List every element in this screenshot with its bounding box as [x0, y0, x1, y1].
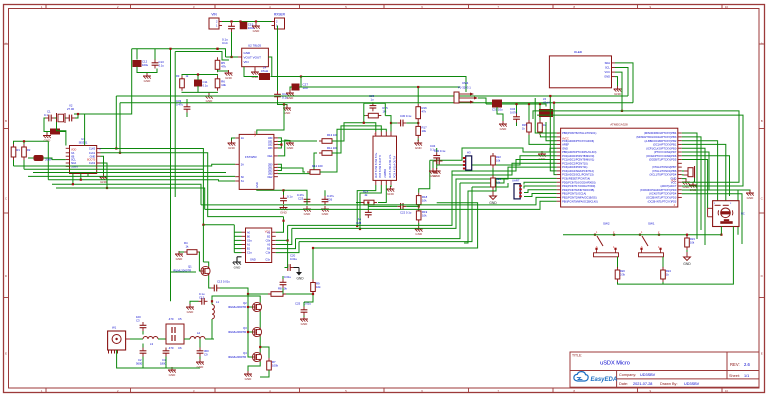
ground right edge: [746, 190, 754, 200]
label Q1: [188, 265, 192, 269]
label C30m: [400, 114, 412, 118]
svg-text:L2: L2: [197, 331, 201, 335]
svg-text:0.01u: 0.01u: [304, 302, 311, 306]
wire outa2 dn: [378, 185, 386, 203]
label OLED: [574, 50, 583, 54]
svg-text:GND: GND: [228, 146, 236, 150]
ground C9: [196, 359, 204, 369]
svg-text:AREF: AREF: [562, 143, 569, 147]
svg-text:GND: GND: [415, 146, 423, 150]
wire u7 lpin: [234, 235, 241, 237]
capacitor C12b: [199, 298, 208, 305]
label W1: [112, 326, 117, 330]
label L2: [197, 331, 201, 335]
node outa: [356, 225, 358, 227]
svg-text:1u: 1u: [371, 98, 375, 102]
wire c25 dn: [303, 316, 305, 318]
label L5v: [543, 101, 550, 105]
wire c31 gnd: [497, 107, 503, 121]
svg-text:GND: GND: [614, 92, 622, 96]
svg-text:10: 10: [725, 5, 729, 9]
ground C26: [321, 206, 329, 216]
IC U7 text: [250, 231, 271, 262]
wire mcu gnd r: [682, 179, 686, 180]
wire 2b comb: [278, 164, 282, 170]
svg-text:GND: GND: [252, 75, 260, 79]
label C14 name: [222, 41, 228, 45]
svg-text:C6: C6: [178, 346, 182, 350]
svg-text:GND: GND: [500, 127, 508, 131]
label CM4: [462, 81, 469, 85]
connector UART: [514, 184, 522, 199]
wire u7 lpin: [234, 239, 241, 241]
svg-text:Sheet:: Sheet:: [729, 374, 740, 378]
node VCC A: [300, 75, 302, 77]
svg-text:SI5351: SI5351: [79, 140, 88, 144]
svg-text:BOOT0: BOOT0: [87, 159, 96, 162]
svg-text:PCB B IN2 B OUT B: PCB B IN2 B OUT B: [379, 155, 382, 178]
resistor R20: [615, 267, 620, 282]
wire audio tie 2: [472, 183, 508, 187]
svg-text:(ICP1/CLKO/PTCXY)PB0: (ICP1/CLKO/PTCXY)PB0: [646, 146, 677, 150]
node u1d1: [72, 183, 74, 185]
wire CLK0 run: [101, 149, 235, 225]
label C14: [222, 38, 228, 42]
ground U5 bottom: [280, 205, 288, 215]
wire r15 top: [528, 104, 530, 120]
svg-text:PC6(/RESET/PCINT14): PC6(/RESET/PCINT14): [562, 177, 590, 181]
svg-text:GND: GND: [322, 212, 330, 216]
wire crystal feed: [74, 49, 132, 114]
wire mcu r8: [682, 160, 708, 209]
svg-text:PC4(ADC4/SDA/PCINT12): PC4(ADC4/SDA/PCINT12): [562, 169, 594, 173]
wire jack mid: [478, 98, 486, 104]
svg-text:C5: C5: [178, 317, 182, 321]
svg-text:1A: 1A: [241, 137, 244, 140]
switch SW2: [594, 222, 619, 257]
capacitor C31: [493, 100, 502, 107]
inductor L2: [190, 337, 205, 340]
node in1b: [390, 122, 392, 124]
svg-text:PC0(ADC0/PCINT8/MUX0): PC0(ADC0/PCINT8/MUX0): [562, 154, 594, 158]
wire mcu pc3 long: [292, 167, 557, 228]
connector OLED outline: [549, 56, 611, 88]
label L3: [150, 342, 154, 346]
label R21v: [496, 181, 501, 185]
wire u7 lpin: [234, 244, 241, 246]
svg-text:H3: H3: [467, 151, 471, 155]
node u2 in: [230, 56, 232, 58]
label C34m: [430, 144, 436, 148]
wire mcu l3: [546, 122, 557, 141]
svg-text:AVCC: AVCC: [562, 138, 569, 141]
capacitor C2: [66, 115, 75, 122]
ground C27: [286, 90, 294, 100]
wire vcc over: [533, 111, 739, 182]
wire r22 r21: [492, 168, 494, 175]
capacitor C14: [228, 23, 235, 32]
label U3: [610, 123, 628, 127]
speaker MIC1: [708, 201, 745, 227]
label R14: [363, 190, 369, 194]
wire mcu r7: [682, 156, 730, 196]
wire u7 a2: [276, 217, 284, 233]
node spk rail: [720, 234, 722, 236]
wire r9 dn: [304, 294, 313, 302]
node r2 top: [23, 140, 25, 142]
label R8: [278, 287, 287, 291]
wire c11 top: [197, 75, 199, 81]
wire to lm2: [332, 126, 381, 153]
MCU pin stub PB0: [557, 200, 561, 202]
label Q3 part: [228, 330, 246, 334]
label C12b: [199, 292, 205, 296]
wire CLK0 down: [202, 225, 204, 262]
node clk2: [106, 187, 108, 189]
svg-text:GND: GND: [144, 79, 152, 83]
node c18: [282, 189, 284, 191]
wire xtal1: [682, 170, 684, 172]
svg-text:47k: 47k: [221, 64, 226, 68]
MCU U3 ATMEGA328: [557, 128, 682, 207]
wire c22 in: [368, 205, 397, 207]
label R20: [620, 269, 625, 273]
svg-text:C30 0.1u: C30 0.1u: [434, 149, 446, 153]
label X1v: [67, 107, 74, 111]
label L1: [216, 300, 220, 304]
svg-text:CM4: CM4: [462, 81, 469, 85]
svg-text:GND: GND: [301, 322, 309, 326]
node c34: [515, 103, 517, 105]
ground C20 black: [294, 268, 305, 281]
wire to lm3: [320, 129, 386, 172]
resistor R21: [491, 175, 496, 190]
svg-text:0.1: 0.1: [44, 113, 48, 117]
wire oled vcc: [615, 72, 622, 111]
ground R5: [225, 70, 233, 80]
wire u1 gnd: [101, 156, 104, 174]
label C29v: [371, 98, 375, 102]
capacitor C19: [274, 91, 288, 100]
svg-text:A: A: [5, 41, 7, 45]
ground X1: [43, 133, 51, 143]
svg-text:ATMEGA328: ATMEGA328: [610, 123, 628, 127]
wire u1 drop3: [87, 174, 89, 177]
wire l2 in: [184, 338, 190, 340]
label R3: [176, 74, 180, 78]
resistor R23: [685, 235, 690, 250]
transistor Q4: [252, 352, 261, 361]
svg-text:(XCL1/T0/PTCXY)PD4: (XCL1/T0/PTCXY)PD4: [649, 173, 676, 177]
svg-text:10k: 10k: [422, 199, 427, 203]
svg-text:10k: 10k: [496, 181, 501, 185]
wire SCL bus: [116, 95, 628, 97]
regulator U2 78L05: [242, 48, 269, 66]
wire u7 c20: [276, 240, 288, 267]
label C25v: [304, 302, 311, 306]
wire railA to U2: [226, 56, 232, 58]
svg-text:10k: 10k: [221, 83, 226, 87]
wire mcu r3: [682, 141, 718, 201]
svg-text:OE2: OE2: [267, 176, 273, 179]
resistor R3: [180, 76, 185, 91]
svg-text:C1b: C1b: [265, 259, 270, 262]
svg-text:10k: 10k: [690, 241, 695, 245]
label R9v: [316, 285, 321, 289]
wire hub vertical: [47, 141, 49, 179]
label C31: [492, 108, 503, 112]
label C3: [136, 315, 141, 319]
wire mcu pb0 long: [430, 148, 557, 160]
capacitor C34m: [433, 152, 440, 161]
regulator U2 outline pins: [238, 57, 272, 70]
svg-text:GND: GND: [245, 377, 253, 381]
capacitor C26: [322, 196, 329, 205]
resistor R1: [11, 144, 16, 160]
svg-text:GND: GND: [225, 76, 233, 80]
ground finals: [244, 371, 252, 381]
wire outa dn: [357, 185, 376, 226]
wire 1b comb: [278, 142, 282, 149]
wire r1 dn: [13, 160, 15, 166]
resistor R4: [184, 250, 200, 255]
label C13v: [159, 64, 165, 68]
svg-text:GND: GND: [747, 196, 755, 200]
wire fb l: [28, 157, 34, 159]
wire fb cap stub: [372, 102, 374, 103]
wire C12 top: [136, 49, 138, 60]
node bias: [312, 247, 314, 249]
capacitor C28: [365, 209, 372, 218]
transistor Q3: [252, 327, 261, 336]
svg-text:(MOSI0/TXD1/OC2A/PTCXY)PB3: (MOSI0/TXD1/OC2A/PTCXY)PB3: [636, 135, 676, 139]
svg-text:PB1(PCINT1/OC1A): PB1(PCINT1/OC1A): [562, 192, 586, 196]
inductor L4: [259, 66, 270, 80]
label C33: [176, 99, 182, 103]
wire c1 down: [44, 118, 50, 132]
wire audio tie 1: [460, 179, 504, 183]
wire bus b1: [14, 164, 236, 166]
wire mcu r2: [682, 137, 701, 230]
svg-text:100u: 100u: [142, 63, 149, 67]
wire c33 up: [186, 99, 188, 104]
svg-text:PB6(PCINT6/XTAL1/TOSC1): PB6(PCINT6/XTAL1/TOSC1): [562, 131, 596, 135]
ferrite bead FB1: [34, 155, 53, 162]
svg-text:100k: 100k: [272, 364, 279, 368]
ground R21: [489, 190, 497, 205]
label R18v: [422, 199, 427, 203]
wire gnd stub c11: [208, 91, 210, 94]
resistor R6: [215, 76, 226, 91]
wire fb to in: [385, 116, 391, 123]
node sda bus: [549, 95, 551, 97]
wire U2 out: [268, 57, 271, 77]
wire VCC long run: [301, 77, 466, 93]
wire c3 dn: [142, 331, 144, 335]
wire c19 gnd link: [278, 100, 288, 106]
wire adc7 over: [537, 115, 743, 186]
svg-text:0.1u: 0.1u: [287, 195, 293, 199]
label C12: [142, 60, 148, 64]
wire r24 dn: [662, 282, 664, 284]
node gate3: [247, 331, 249, 333]
svg-text:R21: R21: [496, 177, 501, 181]
svg-text:27.00: 27.00: [67, 107, 74, 111]
wire c11 bottom rail: [182, 91, 218, 94]
node VIN rail: [230, 20, 232, 22]
svg-text:REV:: REV:: [730, 362, 740, 367]
svg-text:2.6: 2.6: [744, 362, 750, 367]
svg-text:C3: C3: [136, 319, 140, 323]
wire r16 vcc: [417, 87, 419, 104]
svg-text:UD3SBV: UD3SBV: [684, 382, 700, 386]
wire fb r: [44, 158, 66, 160]
svg-text:GND: GND: [304, 212, 312, 216]
svg-text:(MISO0/RXD1/PTCXY)PB4: (MISO0/RXD1/PTCXY)PB4: [644, 131, 677, 135]
label C4: [162, 358, 166, 362]
wire switch rail: [563, 234, 721, 236]
node VIN rail 2: [239, 20, 241, 22]
label C26n: [327, 198, 333, 202]
capacitor C20: [285, 264, 294, 271]
svg-text:C22 0.1u: C22 0.1u: [400, 211, 412, 215]
wire CLK1 run: [101, 153, 284, 217]
wire SDA bus: [120, 102, 633, 104]
wire mcu long 204: [201, 197, 557, 205]
resistor R9: [311, 280, 316, 295]
wire u7 lpin: [234, 252, 241, 254]
svg-text:GND: GND: [387, 192, 395, 196]
crystal X1: [56, 113, 66, 123]
svg-text:.470: .470: [168, 346, 174, 350]
svg-text:PJ-3203 1: PJ-3203 1: [458, 86, 471, 90]
svg-text:CLK2: CLK2: [89, 162, 96, 165]
svg-text:(XCK0/T0/PTCXY)PD4: (XCK0/T0/PTCXY)PD4: [649, 192, 677, 196]
connector CM4 PJ-3203: [454, 92, 478, 104]
wire mcu r last: [682, 194, 742, 244]
node vcc c19: [283, 103, 285, 105]
svg-text:GND: GND: [562, 146, 568, 150]
wire l1 dn: [211, 319, 213, 339]
capacitor C4: [163, 348, 170, 357]
capacitor C13: [152, 60, 159, 69]
wire r4 gnd: [179, 251, 184, 253]
label C9: [204, 349, 209, 353]
label Q2: [243, 301, 247, 305]
capacitor C34: [513, 114, 520, 123]
transistor Q2: [252, 302, 261, 311]
resistor R16: [538, 120, 543, 135]
wire r7 top: [260, 347, 269, 358]
wire l3 out: [158, 338, 166, 340]
node railA: [169, 48, 171, 50]
label R7v: [272, 364, 279, 368]
wire c28 up: [367, 203, 369, 210]
wire fb right: [384, 103, 386, 115]
wire rf drive: [170, 271, 196, 273]
capacitor C30: [434, 158, 443, 165]
svg-text:1M: 1M: [383, 110, 388, 114]
label R7: [272, 360, 276, 364]
svg-text:C0b: C0b: [266, 240, 271, 243]
svg-text:C30 0.1u: C30 0.1u: [400, 114, 412, 118]
ground U5 left: [228, 140, 236, 150]
svg-text:.470: .470: [168, 317, 174, 321]
wire u5 vcc: [257, 105, 284, 135]
svg-text:10k: 10k: [422, 129, 427, 133]
wire gate2: [248, 306, 253, 308]
capacitor C17: [280, 279, 287, 288]
svg-text:10k: 10k: [422, 214, 427, 218]
title block: [570, 352, 759, 387]
svg-text:GND: GND: [169, 373, 177, 377]
capacitor C1: [46, 115, 55, 122]
svg-text:(ADC7)ADC7: (ADC7)ADC7: [660, 184, 676, 188]
svg-text:C12: C12: [199, 296, 205, 300]
wire xa: [57, 122, 66, 146]
wire r18 r19: [418, 207, 420, 209]
label C1v: [44, 113, 48, 117]
ground X2: [689, 182, 697, 192]
svg-text:C25: C25: [295, 302, 301, 306]
label R23: [690, 237, 695, 241]
wire c26 up: [324, 190, 326, 196]
svg-text:GND: GND: [255, 182, 259, 188]
svg-text:1B0: 1B0: [268, 137, 273, 140]
resistor R18: [416, 193, 421, 208]
svg-text:47uH: 47uH: [261, 69, 268, 73]
connector H3: [463, 156, 472, 170]
wire c11 dn: [197, 86, 199, 92]
svg-text:GND: GND: [197, 365, 205, 369]
wire c9 dn: [199, 357, 201, 360]
wire c3b gnd lead: [47, 132, 50, 134]
wire c34 bottom: [516, 123, 518, 127]
transistor Q1: [201, 266, 210, 275]
wire bus b6: [52, 184, 201, 205]
wire mcu d3: [524, 194, 557, 197]
wire L4 right: [271, 76, 302, 78]
svg-text:VCC: VCC: [671, 179, 676, 182]
label R19: [422, 210, 428, 214]
label R15: [383, 106, 389, 110]
svg-text:R1: R1: [17, 148, 21, 152]
wire 1b2: [278, 153, 317, 174]
svg-text:(OC2B-INT1/PTCXY)PD3: (OC2B-INT1/PTCXY)PD3: [648, 201, 677, 204]
capacitor C15: [240, 22, 255, 30]
wire sw loop: [618, 227, 734, 285]
svg-text:C9: C9: [204, 353, 208, 357]
label UART: [512, 179, 520, 183]
ground C4 bus: [168, 367, 176, 377]
svg-text:IRLML2060TR: IRLML2060TR: [228, 355, 246, 359]
wire VIN to RXSER: [222, 21, 272, 23]
svg-text:PC1(ADC1/PCINT9/MUX1): PC1(ADC1/PCINT9/MUX1): [562, 158, 594, 162]
ground C30: [429, 168, 437, 178]
wire 1b0: [278, 138, 317, 141]
wire r8 in: [248, 293, 268, 295]
svg-text:1B3: 1B3: [268, 147, 273, 150]
wire to lm1: [332, 123, 376, 141]
wire u7 lpin: [234, 231, 241, 233]
wire c12 gnd: [190, 301, 199, 305]
wire vertical drop B: [174, 52, 176, 198]
wire w1 gnd: [117, 350, 143, 368]
svg-text:Drawn By:: Drawn By:: [660, 382, 678, 386]
resistor R15: [527, 120, 532, 135]
node VIN rail 3: [255, 20, 257, 22]
wire audio line 1: [296, 183, 461, 239]
